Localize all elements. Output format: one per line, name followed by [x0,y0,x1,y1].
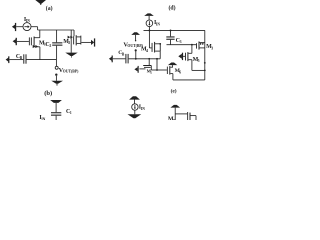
svg-text:7: 7 [173,119,175,120]
svg-text:6: 6 [179,70,181,74]
svg-text:2: 2 [150,70,152,74]
svg-text:(d): (d) [169,4,176,11]
svg-text:3: 3 [180,40,182,44]
svg-text:IN: IN [141,107,145,111]
svg-text:4: 4 [146,49,148,53]
svg-text:(a): (a) [46,5,53,12]
svg-text:IN: IN [156,23,160,27]
svg-text:2: 2 [49,44,51,48]
svg-text:OUT(BP): OUT(BP) [63,70,79,74]
svg-text:IN: IN [41,118,45,121]
svg-text:2: 2 [68,41,70,45]
svg-text:3: 3 [211,47,213,51]
svg-text:B: B [122,53,125,57]
svg-text:(e): (e) [171,88,177,95]
svg-text:1: 1 [70,111,72,115]
svg-text:5: 5 [198,59,200,63]
svg-text:(b): (b) [44,90,52,97]
